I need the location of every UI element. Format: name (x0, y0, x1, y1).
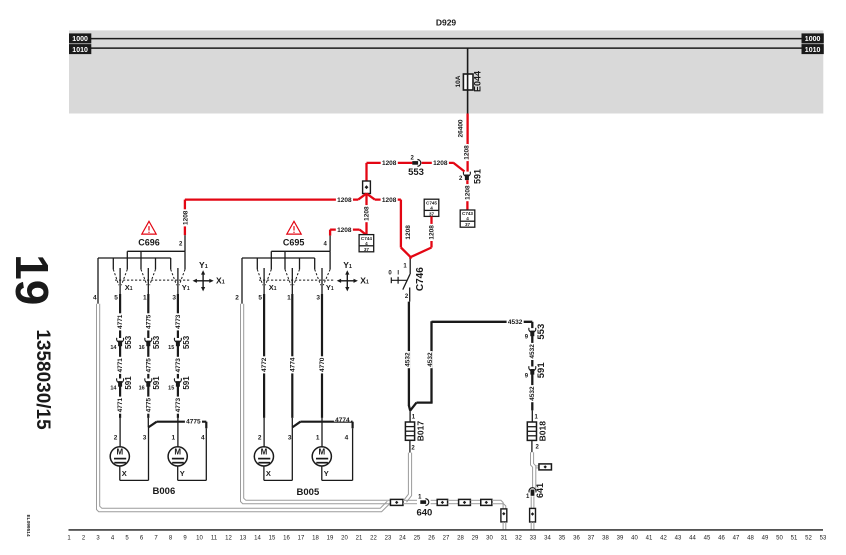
wire 4771 lower (119, 385, 121, 418)
svg-text:6: 6 (140, 536, 144, 542)
wire 4772 column (263, 268, 265, 294)
svg-text:40: 40 (631, 536, 638, 542)
svg-text:49: 49 (762, 536, 769, 542)
svg-text:2: 2 (114, 435, 118, 442)
svg-text:591: 591 (472, 169, 482, 184)
svg-text:2: 2 (82, 536, 86, 542)
connector 553 pin 15 (174, 338, 181, 343)
wire 4 to ground (B006, black then hollow) (97, 258, 99, 304)
ground lead from B017 (hollow) (404, 453, 408, 500)
diagonal into 591 (red) (454, 163, 465, 172)
ground splice dot-box 3 (459, 499, 471, 505)
svg-text:B018: B018 (538, 421, 548, 442)
warning triangle C695 (287, 221, 301, 234)
svg-text:1208: 1208 (463, 145, 470, 160)
wire corner down to connector 553 (right) (531, 322, 533, 328)
ground lead from B018 (hollow) with branch splice (531, 452, 533, 488)
svg-text:1: 1 (316, 435, 320, 442)
svg-text:38: 38 (602, 536, 609, 542)
svg-text:4532: 4532 (529, 386, 536, 401)
svg-text:2: 2 (258, 435, 262, 442)
connector 553 pin 2 (top) (412, 161, 418, 165)
svg-text:553: 553 (182, 335, 191, 349)
svg-text:1: 1 (287, 294, 291, 301)
wire 4771 mid (119, 345, 121, 379)
svg-text:4: 4 (430, 205, 433, 210)
connector C695 lower rail (242, 257, 315, 259)
ground bus segment (470, 499, 480, 501)
svg-text:3: 3 (143, 435, 147, 442)
svg-text:41: 41 (646, 536, 653, 542)
motor B006-Y (168, 447, 187, 466)
ground splice dot-box 4 (481, 499, 492, 505)
wire 1208 right branch to switch C746 (red) (375, 198, 401, 200)
bus wire 1010 (91, 47, 802, 49)
svg-text:43: 43 (675, 536, 682, 542)
svg-text:36: 36 (573, 536, 580, 542)
wire fuse to band edge (467, 90, 469, 114)
svg-text:EL099514: EL099514 (25, 514, 31, 536)
svg-text:33: 33 (530, 536, 537, 542)
svg-text:10A: 10A (455, 75, 462, 87)
svg-text:1: 1 (143, 294, 147, 301)
svg-text:27: 27 (443, 536, 450, 542)
svg-text:14: 14 (254, 536, 261, 542)
svg-text:4771: 4771 (117, 358, 124, 373)
svg-text:X: X (266, 469, 271, 478)
connector 553 pin 16 (145, 338, 152, 343)
svg-text:42: 42 (660, 536, 667, 542)
wire 26400 (red) (466, 114, 468, 172)
svg-text:C695: C695 (283, 237, 305, 247)
svg-text:Y1: Y1 (199, 260, 208, 270)
svg-text:Y: Y (324, 469, 329, 478)
svg-text:16: 16 (283, 536, 290, 542)
C695 funnel legs (270, 251, 272, 269)
svg-text:10: 10 (196, 536, 203, 542)
svg-text:X: X (122, 469, 127, 478)
wire 4775 column (147, 268, 149, 294)
svg-text:1208: 1208 (382, 197, 397, 204)
svg-text:1208: 1208 (428, 225, 435, 240)
svg-text:46: 46 (718, 536, 725, 542)
svg-text:4775: 4775 (145, 314, 152, 329)
wire 1208 from 591 to C743 (red) (466, 180, 468, 210)
svg-text:1208: 1208 (363, 206, 370, 221)
connector 553 pin 9 (right) (529, 328, 536, 333)
B005 motor return loops (263, 466, 265, 480)
svg-text:53: 53 (820, 536, 827, 542)
svg-text:29: 29 (472, 536, 479, 542)
wire 4770 column (321, 268, 323, 294)
svg-text:1010: 1010 (805, 47, 821, 54)
wires into B006 motors (119, 418, 121, 447)
svg-text:1208: 1208 (337, 227, 352, 234)
svg-text:14: 14 (110, 386, 117, 392)
C696 funnel legs (126, 251, 128, 269)
motor B005-Y (312, 447, 331, 466)
power-rail band (69, 30, 823, 113)
wire 4775 mid (147, 345, 149, 379)
ground splice dot-box right of B018 lead (539, 464, 552, 470)
wires into B005 motors (263, 418, 265, 447)
svg-text:15: 15 (269, 536, 276, 542)
node 1000 left box (70, 34, 91, 43)
svg-text:4775: 4775 (145, 397, 152, 412)
svg-text:52: 52 (805, 536, 812, 542)
wire 4771 column (119, 268, 121, 294)
splice branches (red bird-foot) (358, 194, 366, 200)
svg-text:39: 39 (617, 536, 624, 542)
wire 4775 split diagonal and crossover (B006) (147, 418, 149, 428)
svg-text:641: 641 (535, 483, 545, 498)
ground lead to sheet edge (bus end) (502, 522, 504, 529)
connector ref box C745 pin 4 (424, 199, 439, 216)
wire 1208 horizontal to connector 553 (red) (367, 162, 413, 164)
connector 591 pin 16 (145, 378, 152, 383)
connector 553 pin 14 (117, 338, 124, 343)
svg-text:31: 31 (501, 536, 508, 542)
svg-text:1208: 1208 (337, 197, 352, 204)
svg-text:1208: 1208 (405, 225, 412, 240)
motor B005-X (254, 447, 273, 466)
C696 pin dashed line X1-Y1 (115, 279, 191, 281)
svg-text:Y1: Y1 (343, 260, 352, 270)
svg-text:26: 26 (428, 536, 435, 542)
svg-text:22: 22 (370, 536, 377, 542)
svg-text:X1: X1 (216, 276, 225, 286)
connector C695 top rail (271, 250, 330, 252)
svg-text:51: 51 (791, 536, 798, 542)
svg-text:591: 591 (124, 376, 133, 390)
svg-text:4774: 4774 (335, 417, 350, 424)
svg-text:3: 3 (288, 435, 292, 442)
svg-text:3: 3 (96, 536, 100, 542)
svg-text:4771: 4771 (117, 314, 124, 329)
svg-text:B006: B006 (153, 486, 176, 497)
svg-text:11: 11 (211, 536, 218, 542)
wire 4532 between 591 and B018 (531, 373, 533, 410)
connector C696 lower rail (98, 257, 171, 259)
svg-text:24: 24 (399, 536, 406, 542)
svg-text:1: 1 (412, 414, 416, 420)
C695 pin dashed line X1-Y1 (259, 279, 335, 281)
svg-text:17: 17 (298, 536, 305, 542)
svg-text:1: 1 (535, 414, 539, 420)
svg-text:0: 0 (388, 271, 392, 277)
connector 591 pin 9 (right) (529, 366, 536, 371)
svg-text:640: 640 (416, 507, 432, 518)
svg-text:D929: D929 (436, 17, 457, 27)
svg-text:1000: 1000 (72, 36, 88, 43)
C696 funnel dashed chevrons (113, 269, 119, 285)
svg-text:1208: 1208 (182, 210, 189, 225)
wire 2 to ground (B005, black then hollow) (241, 258, 243, 304)
svg-text:1: 1 (418, 495, 422, 501)
svg-text:32: 32 (515, 536, 522, 542)
svg-text:553: 553 (408, 167, 424, 178)
svg-text:37: 37 (364, 247, 370, 252)
svg-text:1000: 1000 (805, 36, 821, 43)
wire label 1208 above connector 591 (464, 144, 469, 161)
svg-text:4775: 4775 (145, 358, 152, 373)
svg-text:5: 5 (125, 536, 129, 542)
wire 1208 corner down to C696 pin 2 (red) (184, 200, 186, 236)
fuse E044 (463, 74, 473, 90)
svg-text:37: 37 (588, 536, 595, 542)
svg-text:2: 2 (411, 445, 415, 451)
svg-text:M: M (174, 448, 181, 457)
svg-text:8: 8 (169, 536, 173, 542)
svg-text:23: 23 (385, 536, 392, 542)
svg-text:4770: 4770 (319, 357, 326, 372)
svg-text:21: 21 (356, 536, 363, 542)
wire 4774 column (291, 268, 293, 294)
svg-text:553: 553 (124, 335, 133, 349)
svg-text:13: 13 (240, 536, 247, 542)
ground splice dot-box vertical (bus end) (501, 509, 507, 522)
ground bus corner down (hollow) (492, 500, 503, 509)
wire 4532 from switch C746 to B017 (409, 288, 411, 302)
connector 640 pin 1 (420, 500, 426, 504)
svg-text:553: 553 (536, 324, 547, 340)
svg-text:19: 19 (327, 536, 334, 542)
svg-text:1: 1 (171, 435, 175, 442)
connector 591 pin 2 (top) (463, 172, 470, 177)
svg-text:1208: 1208 (464, 185, 471, 200)
svg-text:4532: 4532 (405, 352, 412, 367)
svg-text:2: 2 (411, 155, 415, 161)
svg-text:37: 37 (429, 211, 435, 216)
svg-text:16: 16 (139, 386, 145, 392)
svg-text:E044: E044 (473, 71, 483, 92)
axis cross X1/Y1 (B005) (340, 280, 355, 282)
svg-text:47: 47 (733, 536, 740, 542)
wire 4774 split diagonal and crossover (B005) (291, 418, 293, 428)
svg-text:7: 7 (154, 536, 158, 542)
connector 591 pin 15 (174, 378, 181, 383)
svg-text:1358030/15: 1358030/15 (32, 329, 53, 430)
svg-text:2: 2 (235, 294, 239, 301)
svg-text:9: 9 (525, 334, 529, 340)
wire 1208 from C695 pin 4 to C744 (red) (329, 230, 331, 236)
svg-text:M: M (318, 448, 325, 457)
ground lead to sheet edge (641 chain) (530, 522, 532, 529)
svg-text:4773: 4773 (175, 358, 182, 373)
svg-text:1208: 1208 (382, 160, 397, 167)
wire 1208 from C745 to switch C746 (red) (430, 216, 432, 247)
svg-text:15: 15 (168, 345, 174, 351)
svg-text:4775: 4775 (186, 419, 201, 426)
svg-text:B005: B005 (297, 487, 320, 498)
svg-text:9: 9 (183, 536, 187, 542)
wire 4775 lower (147, 385, 149, 418)
svg-text:35: 35 (559, 536, 566, 542)
node 1000 right box (802, 34, 823, 43)
wire 4773 column (177, 268, 179, 294)
svg-text:50: 50 (776, 536, 783, 542)
svg-text:3: 3 (172, 294, 176, 301)
ground bus to connector 640 (hollow) (403, 499, 417, 501)
splice box with dot (363, 181, 371, 194)
svg-text:1208: 1208 (433, 160, 448, 167)
wire corner down to splice (red) (365, 163, 367, 182)
svg-text:Y: Y (180, 469, 185, 478)
svg-text:4774: 4774 (289, 357, 296, 372)
svg-text:B017: B017 (415, 421, 425, 442)
svg-text:4772: 4772 (261, 357, 268, 372)
svg-text:4: 4 (365, 241, 368, 246)
svg-text:4771: 4771 (117, 397, 124, 412)
svg-text:20: 20 (341, 536, 348, 542)
wire from bus 1010 to fuse E044 (467, 48, 469, 75)
svg-text:1010: 1010 (72, 47, 88, 54)
svg-text:4773: 4773 (175, 314, 182, 329)
svg-text:X1: X1 (125, 283, 133, 292)
node 1010 left box (70, 45, 91, 54)
B006 motor return loops (119, 466, 121, 480)
wire 4773 lower (177, 385, 179, 418)
wire C695 pin 4 (black segment) (329, 236, 331, 252)
svg-text:591: 591 (536, 362, 547, 379)
svg-text:553: 553 (152, 335, 161, 349)
connector C696 top rail (127, 250, 185, 252)
svg-text:4: 4 (324, 242, 328, 248)
wire 1208 long horizontal to C696 (red) (185, 198, 358, 200)
svg-text:4: 4 (111, 536, 115, 542)
svg-text:30: 30 (486, 536, 493, 542)
svg-text:X1: X1 (360, 276, 369, 286)
grid ruler line (69, 529, 824, 531)
connector ref box C743 pin 4 (460, 210, 475, 227)
svg-text:2: 2 (179, 242, 183, 248)
wire 4773 mid (177, 345, 179, 379)
ground splice dot-box 2 (437, 499, 447, 505)
svg-text:2: 2 (459, 176, 463, 182)
svg-text:4: 4 (201, 435, 205, 442)
svg-text:44: 44 (689, 536, 696, 542)
svg-text:4532: 4532 (508, 319, 523, 326)
ground splice dot-box junction (390, 499, 403, 505)
svg-text:26400: 26400 (457, 119, 464, 137)
svg-text:45: 45 (704, 536, 711, 542)
svg-text:M: M (261, 448, 268, 457)
svg-text:Y1: Y1 (182, 283, 190, 292)
heater element B018 (531, 410, 533, 422)
svg-text:28: 28 (457, 536, 464, 542)
warning triangle C696 (142, 221, 156, 234)
C695 funnel dashed chevrons (257, 269, 263, 285)
ground lead below 641 (hollow) (530, 496, 532, 508)
svg-text:4: 4 (345, 435, 349, 442)
connector ref box C744 pin 4 (359, 235, 374, 252)
svg-text:14: 14 (110, 345, 117, 351)
svg-text:16: 16 (139, 345, 145, 351)
svg-text:C696: C696 (138, 237, 160, 247)
ground bus segment (431, 499, 438, 501)
svg-text:2: 2 (405, 294, 409, 300)
svg-text:C746: C746 (415, 267, 426, 291)
svg-text:19: 19 (6, 254, 58, 305)
node 1010 right box (802, 45, 823, 54)
svg-text:25: 25 (414, 536, 421, 542)
svg-text:I: I (397, 271, 399, 277)
heater element B017 (409, 410, 411, 422)
wire 4532 horizontal to 553 (432, 321, 533, 323)
svg-text:1: 1 (67, 536, 71, 542)
axis cross X1/Y1 (B006) (196, 280, 211, 282)
svg-text:48: 48 (747, 536, 754, 542)
svg-text:Y1: Y1 (326, 283, 334, 292)
motor B006-X (110, 447, 129, 466)
ground bus segment (448, 499, 459, 501)
svg-text:15: 15 (168, 386, 174, 392)
svg-text:4: 4 (466, 216, 469, 221)
svg-text:591: 591 (182, 376, 191, 390)
wire 4532 between 553 and 591 (531, 335, 533, 366)
svg-text:5: 5 (258, 294, 262, 301)
svg-text:4532: 4532 (427, 352, 434, 367)
connector 591 pin 14 (117, 378, 124, 383)
svg-text:M: M (116, 448, 123, 457)
svg-text:X1: X1 (269, 283, 277, 292)
svg-text:12: 12 (225, 536, 232, 542)
svg-text:591: 591 (152, 376, 161, 390)
svg-text:34: 34 (544, 536, 551, 542)
ground splice dot-box vertical (641 chain) (530, 508, 536, 522)
svg-text:5: 5 (114, 294, 118, 301)
svg-text:9: 9 (525, 373, 529, 379)
svg-text:3: 3 (316, 294, 320, 301)
connector 641 pin 1 (529, 488, 536, 493)
wire 4532 drop from horizontal to B017 (430, 321, 432, 402)
svg-text:2: 2 (536, 444, 540, 450)
svg-text:18: 18 (312, 536, 319, 542)
svg-text:4: 4 (93, 294, 97, 301)
svg-text:4773: 4773 (175, 397, 182, 412)
bus wire 1000 (91, 38, 802, 40)
svg-text:37: 37 (465, 222, 471, 227)
svg-text:4532: 4532 (529, 344, 536, 359)
svg-text:1: 1 (403, 263, 407, 269)
wire C696 pin 2 (black segment) (184, 235, 186, 251)
svg-text:1: 1 (526, 494, 530, 500)
